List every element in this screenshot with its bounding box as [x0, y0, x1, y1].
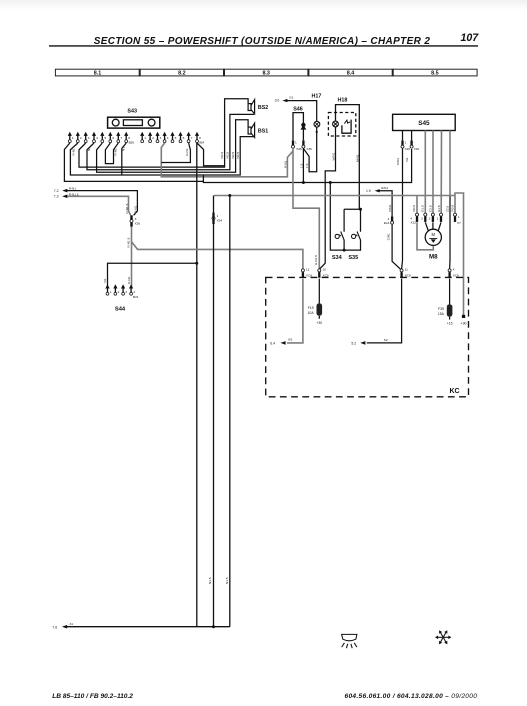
wire S45 C/N1 to X20: [402, 131, 404, 141]
control unit S45: [393, 114, 456, 130]
connector X12 pin 1: [437, 213, 443, 222]
svg-text:2: 2: [152, 136, 154, 140]
connector B50 pin 8: [124, 132, 134, 145]
connector XC8 pin 4: [448, 268, 459, 278]
svg-text:11: 11: [405, 268, 408, 272]
svg-text:3: 3: [88, 136, 90, 140]
svg-text:1: 1: [437, 216, 439, 220]
wire X12-2 to motor: [432, 222, 434, 229]
wire XC9-10 to fuse F19: [318, 279, 320, 304]
wire XC8-11 to S2: [367, 279, 402, 343]
svg-text:N0.5: N0.5: [412, 205, 416, 212]
svg-text:N1: N1: [405, 157, 409, 161]
connector X36 pin 2: [302, 140, 312, 150]
wire N1.5 long drop middle: [213, 196, 215, 627]
switch S34: [332, 209, 361, 260]
wire N0.5 from +30 bus to X12-4 (gray): [416, 196, 418, 214]
svg-text:1: 1: [144, 136, 146, 140]
svg-text:5: 5: [104, 136, 106, 140]
svg-text:X12: X12: [410, 221, 416, 225]
svg-text:S43: S43: [127, 108, 137, 114]
svg-text:3: 3: [160, 136, 162, 140]
svg-text:R-N1: R-N1: [134, 206, 138, 213]
svg-text:12: 12: [306, 268, 310, 272]
svg-text:X34: X34: [217, 219, 223, 223]
svg-text:1: 1: [72, 136, 74, 140]
connector X20 pin 2: [410, 140, 419, 150]
connector XC9 pin 10: [318, 268, 329, 278]
svg-text:7.2: 7.2: [54, 189, 59, 193]
svg-text:H17: H17: [311, 94, 321, 100]
lamp H18: [333, 121, 339, 127]
svg-text:XC8: XC8: [453, 273, 459, 277]
wire R-N1.5 from 7.3 to X6 (gray): [67, 196, 130, 215]
svg-text:6: 6: [183, 136, 185, 140]
wire R-N1.5 branch to XC8-12 (gray): [132, 242, 303, 269]
connector BM pin 4: [163, 132, 169, 143]
svg-text:X26: X26: [135, 221, 141, 225]
svg-text:F39: F39: [438, 307, 444, 311]
connector X6 joint: [130, 215, 140, 226]
svg-text:4: 4: [167, 136, 169, 140]
connector S44 pin 3: [121, 284, 127, 295]
svg-text:S44: S44: [115, 306, 126, 312]
svg-text:S34: S34: [332, 255, 343, 261]
wire XC8-4 to fuse F39: [449, 279, 451, 305]
wire E14 to XC8-11: [392, 224, 401, 269]
svg-text:N1.5: N1.5: [225, 577, 229, 584]
wire step joining bundle line to N1 bus: [202, 175, 204, 181]
svg-text:C/N1: C/N1: [396, 158, 400, 165]
svg-text:X20: X20: [405, 147, 411, 151]
node S46 pin2 on N1 bus: [302, 181, 305, 184]
ruler labels: [94, 70, 439, 76]
wire R-N1 from X6 to S44 pin4 (gray): [131, 227, 133, 286]
top scan shade: [0, 0, 527, 10]
connector B50 pin 7: [116, 132, 122, 143]
connector X34 joint on middle drop: [212, 213, 222, 224]
svg-text:3.0: 3.0: [275, 99, 280, 103]
connector BM pin 2: [148, 132, 154, 143]
wire X12-1 to motor: [438, 222, 441, 231]
svg-text:F19: F19: [308, 306, 314, 310]
connector B50 pin 4: [92, 132, 98, 143]
wire S45 Z2.5 to XC8-4 (gray upper): [449, 131, 451, 197]
svg-text:7: 7: [191, 136, 193, 140]
wire N1 from S44 pin1 to ground drop: [108, 263, 197, 286]
svg-text:E14: E14: [384, 221, 390, 225]
wire speaker BS2- from pin B50-4: [87, 114, 254, 169]
connector BM pin 7: [187, 132, 193, 143]
svg-text:R-N1: R-N1: [113, 148, 117, 155]
svg-text:8.4: 8.4: [347, 70, 355, 76]
wire S34/S35 frame to N1 bus: [330, 183, 360, 251]
header rule: [49, 45, 478, 47]
svg-text:S45: S45: [418, 120, 430, 127]
svg-text:G1: G1: [289, 95, 293, 99]
section ruler bar: [55, 69, 477, 77]
svg-text:1: 1: [458, 215, 460, 219]
cab connector unit KC dashed box: [266, 277, 469, 396]
connector X12 pin 2: [429, 213, 435, 222]
wire S45 C2.5 to X12 (gray): [432, 131, 434, 214]
svg-text:-: -: [414, 141, 415, 145]
svg-text:R-N1.5: R-N1.5: [127, 237, 131, 247]
node ground junction: [212, 625, 215, 628]
svg-text:R-N1: R-N1: [127, 277, 131, 284]
svg-text:R-N1: R-N1: [284, 161, 288, 168]
wire S45 N1 to X20: [411, 131, 413, 141]
svg-text:N1: N1: [103, 278, 107, 282]
wire S45 R1.5 to X12 (gray): [440, 131, 442, 214]
svg-text:B50: B50: [129, 140, 135, 144]
wire H18 lamp bottom to XC9: [319, 127, 335, 269]
svg-text:X36: X36: [296, 147, 302, 151]
connector B50 pin 2: [76, 132, 82, 143]
radio S43: [108, 108, 160, 128]
svg-text:XC9: XC9: [323, 273, 329, 277]
svg-text:S/1: S/1: [288, 338, 293, 342]
switch S46: [293, 107, 306, 141]
svg-text:N0.5: N0.5: [236, 152, 240, 159]
connector X7 pin 1: [454, 213, 462, 225]
roof lamp icon: [342, 634, 357, 648]
wire speaker BS2+ from pin B50-3: [79, 99, 248, 167]
wire G/N1 to E14: [379, 191, 392, 217]
wire S46 pin2 to N1 bus: [302, 149, 304, 183]
wire X12-3 to motor: [425, 222, 428, 231]
lamp H17: [311, 94, 321, 128]
node H18/S34 frame on N1 bus: [329, 181, 332, 184]
wire R-N1 from pin BM-4 to S46 (gray): [161, 143, 293, 177]
svg-text:7: 7: [120, 136, 122, 140]
svg-text:3: 3: [421, 216, 423, 220]
svg-text:+30: +30: [316, 321, 322, 325]
svg-text:8.5: 8.5: [431, 70, 439, 76]
wire N1 bus from pin B50-1 to S45 (net N1): [64, 143, 411, 183]
connector B50 pin 5: [100, 132, 106, 143]
switch S35: [348, 232, 360, 261]
svg-text:4: 4: [133, 290, 135, 294]
svg-text:X20: X20: [414, 147, 420, 151]
node H17 lamp terminal: [316, 131, 318, 133]
wire S46 pin2 to lamp H17: [303, 127, 316, 172]
wire from pin BM-8 joining speaker line: [197, 143, 225, 166]
svg-text:1.9: 1.9: [366, 189, 371, 193]
wire speaker BS1- from pin B50-2: [70, 137, 254, 175]
svg-text:R1.5: R1.5: [437, 205, 441, 212]
svg-text:1.5: 1.5: [300, 163, 304, 168]
svg-text:2: 2: [80, 136, 82, 140]
svg-text:M-N1: M-N1: [356, 154, 360, 162]
svg-text:S46: S46: [293, 107, 303, 113]
speaker BS1: [248, 123, 255, 137]
svg-text:4: 4: [96, 136, 98, 140]
connector BM pin 8: [195, 132, 205, 145]
svg-text:6.4: 6.4: [270, 342, 275, 346]
wire R0.5 from +30 bus to X7 (gray): [454, 196, 456, 214]
wire speaker BS1+ from pin B50-5: [97, 120, 249, 173]
svg-text:B21: B21: [133, 295, 139, 299]
svg-text:X36: X36: [306, 147, 312, 151]
connector B50 pin 1: [68, 132, 74, 143]
connector XC8 pin 11: [400, 268, 411, 278]
svg-text:G/N1: G/N1: [381, 186, 389, 190]
svg-text:KC: KC: [449, 388, 459, 395]
svg-text:N0.5: N0.5: [231, 152, 235, 159]
connector BM pin 1: [140, 132, 146, 143]
svg-text:3: 3: [135, 217, 137, 221]
connector B50 pin 6: [108, 132, 114, 143]
svg-text:BS2: BS2: [258, 105, 268, 111]
svg-text:1: 1: [110, 290, 112, 294]
connector S44 pin 4: [129, 284, 139, 299]
H18 dashed enclosure: [328, 113, 355, 137]
svg-text:5.2: 5.2: [351, 342, 356, 346]
svg-text:R-N1.5: R-N1.5: [125, 203, 129, 213]
svg-text:1: 1: [295, 141, 297, 145]
svg-text:7.3: 7.3: [54, 195, 59, 199]
svg-text:R-N1: R-N1: [71, 148, 75, 155]
svg-text:SECTION 55 – POWERSHIFT (OUTSI: SECTION 55 – POWERSHIFT (OUTSIDE N/AMERI…: [94, 36, 431, 47]
svg-text:15A: 15A: [438, 312, 445, 316]
svg-text:2: 2: [118, 290, 120, 294]
node N1 junction: [195, 262, 198, 265]
svg-text:R-N1.5: R-N1.5: [314, 255, 318, 265]
svg-text:8.2: 8.2: [178, 70, 186, 76]
connector S44 pin 2: [113, 284, 119, 295]
motor M8: [425, 229, 441, 260]
+30 supply bus (gray): [214, 195, 455, 197]
wire loop pins B50-6 to B50-7: [105, 143, 118, 164]
svg-text:7.6: 7.6: [52, 625, 57, 629]
svg-text:N0.5: N0.5: [226, 152, 230, 159]
wire ground 31 bottom run: [67, 626, 230, 628]
svg-text:5: 5: [175, 136, 177, 140]
wire H18 lamp top to S35 (net M-N1): [336, 105, 360, 210]
snowflake icon: [437, 632, 449, 643]
svg-text:C/N1: C/N1: [388, 204, 392, 211]
svg-text:N1: N1: [87, 147, 91, 151]
svg-text:4: 4: [453, 268, 455, 272]
svg-text:R-N1: R-N1: [185, 148, 189, 155]
fuse F39 15A: [438, 304, 453, 325]
wire N1.5 long drop right: [229, 196, 231, 627]
connector BM pin 3: [155, 132, 161, 143]
svg-text:R0.5: R0.5: [450, 205, 454, 212]
svg-text:N0.5: N0.5: [220, 152, 224, 159]
connector X12 pin 3: [421, 213, 427, 222]
svg-text:XC8: XC8: [405, 273, 411, 277]
svg-text:G1.5: G1.5: [421, 205, 425, 212]
connector B50 pin 3: [84, 132, 90, 143]
wire +30 to KC terminal (gray): [455, 193, 464, 315]
svg-text:+30: +30: [461, 321, 467, 325]
svg-text:107: 107: [461, 32, 480, 44]
svg-text:-31: -31: [69, 622, 74, 626]
svg-text:+15: +15: [447, 321, 453, 325]
svg-text:S35: S35: [348, 255, 358, 261]
svg-text:1.5: 1.5: [305, 163, 309, 168]
wire S45 G1.5 to X12 (gray): [424, 131, 426, 214]
svg-text:C2.5: C2.5: [428, 205, 432, 212]
svg-text:M: M: [432, 232, 436, 237]
svg-text:LB 85–110 / FB 90.2–110.2: LB 85–110 / FB 90.2–110.2: [52, 693, 133, 700]
connector E14 pin 4: [384, 216, 394, 225]
wire S46 pin1 to XC9 (gray): [293, 148, 319, 269]
buzzer inside H18: [342, 120, 351, 134]
svg-text:H18: H18: [337, 98, 347, 104]
node S34 bottom: [343, 249, 346, 252]
svg-text:6: 6: [112, 136, 114, 140]
svg-text:3: 3: [125, 290, 127, 294]
svg-text:XC8: XC8: [306, 273, 312, 277]
svg-text:M8: M8: [429, 253, 438, 260]
connector X36 pin 1: [292, 140, 302, 150]
wire R-N1 from 7.2 to X6: [67, 191, 137, 216]
node S35 top: [359, 208, 362, 211]
svg-text:10A: 10A: [308, 311, 315, 315]
svg-text:1: 1: [405, 141, 407, 145]
connector BM pin 6: [178, 132, 184, 143]
connector XC8 pin 12: [301, 268, 312, 278]
svg-text:8.3: 8.3: [262, 70, 270, 76]
wire C/N1 from X20-1 to XC8-11: [401, 149, 404, 270]
connector S44 pin 1: [105, 284, 111, 295]
connector X12 pin 4: [410, 213, 418, 225]
fuse F19 10A: [308, 303, 323, 325]
connector BM pin 5: [170, 132, 176, 143]
svg-text:-: -: [305, 141, 306, 145]
connector X20 pin 1: [401, 140, 410, 150]
svg-text:S2: S2: [384, 338, 388, 342]
terminal +30: [461, 315, 467, 326]
svg-text:8.1: 8.1: [94, 70, 102, 76]
wire XC8-12 to S/1 (gray): [287, 279, 303, 343]
node long drop on +30 bus: [228, 194, 231, 197]
svg-text:X7: X7: [457, 221, 461, 225]
svg-text:C/N1: C/N1: [386, 233, 390, 240]
wire S45 Z2.5 to XC8-4 (lower): [449, 196, 451, 270]
svg-text:BM: BM: [199, 140, 204, 144]
svg-text:Z2.5: Z2.5: [445, 206, 449, 212]
svg-text:1: 1: [217, 214, 219, 218]
wire N1.5 long drop from pin BM-8: [196, 143, 198, 627]
svg-text:10: 10: [323, 268, 327, 272]
svg-text:N1.5: N1.5: [208, 577, 212, 584]
wire X12-4 to motor bottom (gray): [417, 222, 433, 249]
wire from pin B50-8 down to bundle: [122, 143, 126, 175]
svg-text:604.56.061.00 / 604.13.028.00: 604.56.061.00 / 604.13.028.00 – 09/2000: [345, 693, 478, 700]
svg-text:2: 2: [429, 216, 431, 220]
speaker BS2: [248, 100, 255, 114]
wire G1 feed to lamp H17: [287, 101, 317, 122]
wire loop pins BM-4 to BM-7: [161, 143, 190, 163]
svg-text:BS1: BS1: [258, 128, 268, 134]
